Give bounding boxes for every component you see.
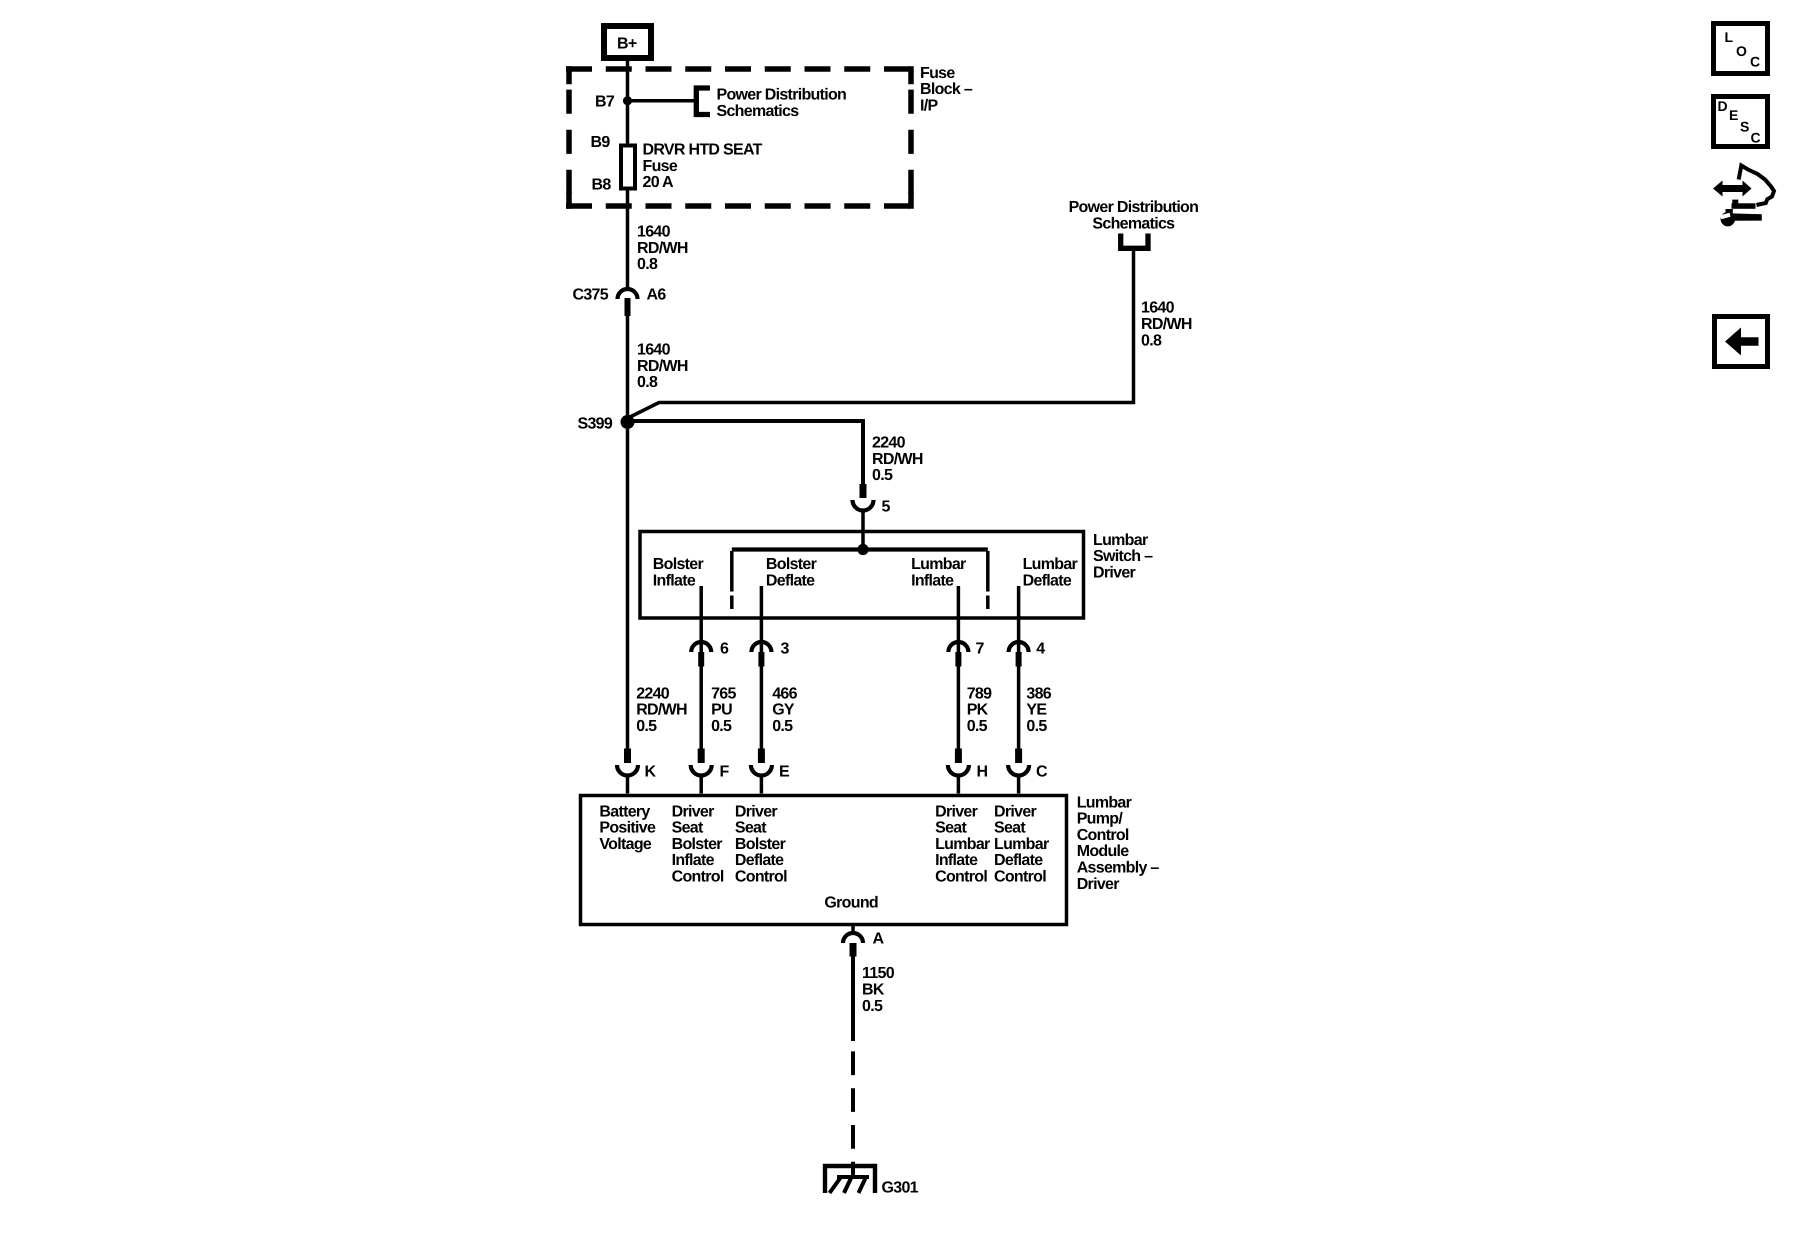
svg-text:Driver: Driver [735, 803, 778, 820]
svg-text:BK: BK [862, 982, 885, 999]
svg-text:B9: B9 [591, 134, 611, 151]
wire 789 PK 0.5 pin 7 to pin H [958, 667, 992, 749]
svg-text:Bolster: Bolster [766, 556, 817, 573]
svg-text:A: A [873, 931, 885, 948]
power distribution reference bracket top right [1069, 199, 1199, 248]
svg-text:Driver: Driver [672, 803, 715, 820]
module input Driver Seat Lumbar Deflate Control [994, 803, 1049, 885]
connector pin 3 [751, 641, 789, 667]
dashed wire to ground [851, 1051, 855, 1164]
svg-text:G301: G301 [882, 1180, 919, 1197]
svg-text:F: F [720, 764, 730, 781]
svg-text:0.8: 0.8 [1141, 332, 1162, 349]
svg-text:Deflate: Deflate [766, 573, 815, 590]
wire 1640 RD/WH 0.8 fuse to C375 [628, 191, 688, 288]
svg-text:Lumbar: Lumbar [994, 836, 1049, 853]
svg-text:Control: Control [672, 869, 724, 886]
svg-text:Bolster: Bolster [672, 836, 723, 853]
wire B+ to fuse [626, 61, 630, 144]
svg-text:Positive: Positive [599, 820, 656, 837]
connector pin F [691, 749, 730, 794]
svg-text:RD/WH: RD/WH [637, 358, 688, 375]
switch position Lumbar Deflate [1023, 556, 1078, 589]
svg-text:L: L [1725, 29, 1734, 45]
svg-text:Fuse: Fuse [643, 158, 678, 175]
svg-text:20 A: 20 A [643, 174, 675, 191]
svg-text:E: E [779, 764, 790, 781]
svg-text:Control: Control [994, 869, 1046, 886]
svg-text:Seat: Seat [935, 820, 967, 837]
connector pin A [843, 926, 885, 957]
svg-text:Driver: Driver [935, 803, 978, 820]
switch position Bolster Inflate [653, 556, 704, 589]
svg-text:0.5: 0.5 [967, 718, 988, 735]
wire Bolster Inflate to pin 6 [699, 586, 703, 652]
svg-text:Inflate: Inflate [911, 573, 954, 590]
connector pin K [617, 749, 657, 794]
svg-text:0.5: 0.5 [711, 718, 732, 735]
svg-text:DRVR HTD SEAT: DRVR HTD SEAT [643, 142, 763, 159]
svg-text:386: 386 [1026, 685, 1051, 702]
switch wiper right contact [986, 551, 990, 609]
wire 1150 BK 0.5 [853, 957, 895, 1042]
svg-text:Schematics: Schematics [717, 103, 800, 120]
svg-text:RD/WH: RD/WH [872, 451, 923, 468]
back button [1715, 317, 1768, 367]
svg-text:0.8: 0.8 [637, 374, 658, 391]
svg-text:Assembly –: Assembly – [1077, 860, 1160, 877]
svg-text:Driver: Driver [994, 803, 1037, 820]
battery positive terminal B+ [604, 26, 651, 58]
svg-text:Block –: Block – [920, 81, 973, 98]
connector pin H [948, 749, 988, 794]
svg-text:1640: 1640 [637, 342, 671, 359]
module input Battery Positive Voltage [599, 803, 656, 853]
module input Driver Seat Lumbar Inflate Control [935, 803, 990, 885]
switch position Bolster Deflate [766, 556, 817, 589]
svg-text:0.5: 0.5 [862, 998, 883, 1015]
wire 765 PU 0.5 pin 6 to pin F [701, 667, 736, 749]
svg-text:0.5: 0.5 [772, 718, 793, 735]
connector pin 5 [853, 484, 891, 516]
svg-text:B+: B+ [617, 36, 637, 53]
svg-text:K: K [645, 764, 657, 781]
svg-text:5: 5 [882, 499, 891, 516]
svg-text:H: H [977, 764, 988, 781]
svg-text:Fuse: Fuse [920, 65, 955, 82]
svg-text:Pump/: Pump/ [1077, 811, 1124, 828]
svg-text:Seat: Seat [672, 820, 704, 837]
svg-text:Deflate: Deflate [994, 852, 1043, 869]
svg-text:Ground: Ground [824, 895, 878, 912]
wire 2240 RD/WH 0.5 S399 to switch pin 5 [628, 421, 923, 484]
svg-text:1150: 1150 [862, 965, 895, 982]
svg-text:D: D [1718, 98, 1728, 114]
splice S399 [578, 415, 635, 433]
module input Driver Seat Bolster Inflate Control [672, 803, 724, 885]
svg-text:789: 789 [967, 685, 992, 702]
svg-text:Power Distribution: Power Distribution [1069, 199, 1199, 216]
svg-text:S: S [1740, 119, 1749, 135]
svg-text:PU: PU [711, 702, 732, 719]
svg-text:Control: Control [935, 869, 987, 886]
svg-text:Deflate: Deflate [1023, 573, 1072, 590]
svg-text:Control: Control [1077, 827, 1129, 844]
svg-text:0.8: 0.8 [637, 256, 658, 273]
svg-text:2240: 2240 [872, 435, 906, 452]
svg-text:RD/WH: RD/WH [636, 702, 687, 719]
svg-text:GY: GY [772, 702, 795, 719]
svg-text:C: C [1751, 130, 1761, 146]
svg-text:C: C [1036, 764, 1048, 781]
svg-text:A6: A6 [647, 286, 667, 303]
connector pin 7 [948, 641, 984, 667]
svg-text:B8: B8 [592, 177, 612, 194]
svg-text:0.5: 0.5 [636, 718, 657, 735]
svg-text:Seat: Seat [735, 820, 767, 837]
svg-text:1640: 1640 [1141, 300, 1175, 317]
ground G301 [825, 1162, 919, 1197]
switch wiper left contact [730, 551, 734, 609]
svg-text:S399: S399 [578, 416, 613, 433]
svg-text:466: 466 [772, 685, 797, 702]
power distribution reference bracket [696, 87, 846, 120]
wire 1640 RD/WH 0.8 S399 to power distribution [629, 251, 1192, 418]
wire 466 GY 0.5 pin 3 to pin E [761, 667, 797, 749]
connector C375 pin A6 [573, 286, 667, 316]
svg-text:Deflate: Deflate [735, 852, 784, 869]
svg-text:Lumbar: Lumbar [911, 556, 966, 573]
switch common bus bar [732, 547, 988, 551]
svg-text:Lumbar: Lumbar [935, 836, 990, 853]
svg-text:PK: PK [967, 702, 989, 719]
connector pin 6 [691, 641, 729, 667]
svg-text:Control: Control [735, 869, 787, 886]
svg-text:Switch –: Switch – [1093, 548, 1153, 565]
node B7 [595, 94, 632, 111]
svg-text:765: 765 [711, 685, 736, 702]
fuse DRVR HTD SEAT 20 A [591, 134, 763, 194]
lumbar pump control module box [581, 794, 1160, 924]
svg-text:Lumbar: Lumbar [1093, 532, 1148, 549]
svg-text:C375: C375 [573, 286, 609, 303]
svg-text:Inflate: Inflate [935, 852, 978, 869]
wire Bolster Deflate to pin 3 [760, 586, 764, 652]
wire B7 to power distribution bracket [628, 99, 695, 103]
wire 2240 RD/WH 0.5 S399 to pin K [628, 429, 688, 749]
junction of pin 5 wire and bus bar [857, 544, 868, 555]
lumbar switch driver box [640, 532, 1153, 619]
schematic navigation icon car with arrow and wrench [1713, 166, 1774, 227]
connector pin E [751, 749, 790, 794]
svg-text:C: C [1750, 54, 1760, 70]
svg-text:4: 4 [1036, 641, 1045, 658]
svg-text:Schematics: Schematics [1092, 216, 1175, 233]
svg-text:Lumbar: Lumbar [1077, 794, 1132, 811]
svg-text:2240: 2240 [636, 685, 670, 702]
svg-text:Bolster: Bolster [653, 556, 704, 573]
LOC button [1714, 24, 1768, 74]
connector pin 4 [1009, 641, 1046, 667]
svg-text:O: O [1736, 43, 1747, 59]
svg-text:Voltage: Voltage [599, 836, 652, 853]
svg-text:RD/WH: RD/WH [1141, 316, 1192, 333]
svg-text:Bolster: Bolster [735, 836, 786, 853]
label Fuse Block - I/P [920, 65, 973, 115]
svg-text:0.5: 0.5 [1026, 718, 1047, 735]
svg-text:Lumbar: Lumbar [1023, 556, 1078, 573]
svg-text:B7: B7 [595, 94, 615, 111]
svg-text:Inflate: Inflate [672, 852, 715, 869]
svg-text:YE: YE [1026, 702, 1047, 719]
wire Lumbar Deflate to pin 4 [1017, 586, 1021, 652]
wire Lumbar Inflate to pin 7 [957, 586, 961, 652]
svg-text:I/P: I/P [920, 97, 938, 114]
switch position Lumbar Inflate [911, 556, 966, 589]
svg-text:E: E [1729, 107, 1738, 123]
svg-text:Power Distribution: Power Distribution [717, 87, 847, 104]
DESC button [1714, 97, 1768, 147]
wire pin 5 into switch [861, 509, 865, 549]
svg-text:Battery: Battery [599, 803, 650, 820]
svg-text:1640: 1640 [637, 224, 671, 241]
svg-text:Seat: Seat [994, 820, 1026, 837]
svg-text:RD/WH: RD/WH [637, 240, 688, 257]
svg-text:Driver: Driver [1077, 876, 1120, 893]
fuse block I/P dashed box [566, 66, 913, 208]
wire 386 YE 0.5 pin 4 to pin C [1019, 667, 1052, 749]
module input Driver Seat Bolster Deflate Control [735, 803, 787, 885]
svg-text:3: 3 [781, 641, 790, 658]
connector pin C [1008, 749, 1048, 794]
svg-text:Inflate: Inflate [653, 573, 696, 590]
svg-text:7: 7 [976, 641, 985, 658]
svg-text:Module: Module [1077, 843, 1130, 860]
wire 1640 RD/WH 0.8 C375 to S399 [628, 316, 688, 416]
svg-text:Driver: Driver [1093, 564, 1136, 581]
svg-text:0.5: 0.5 [872, 467, 893, 484]
svg-text:6: 6 [720, 641, 729, 658]
